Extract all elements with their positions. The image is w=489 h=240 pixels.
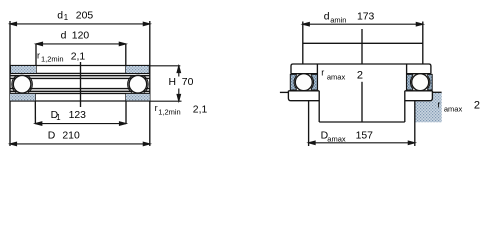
svg-text:2: 2: [474, 99, 480, 111]
svg-text:amax: amax: [444, 105, 463, 114]
svg-text:2,1: 2,1: [193, 104, 208, 115]
svg-text:2: 2: [357, 70, 363, 82]
svg-text:157: 157: [356, 131, 374, 142]
svg-text:r: r: [321, 68, 324, 78]
svg-text:r: r: [437, 100, 440, 110]
svg-text:2,1: 2,1: [71, 51, 86, 62]
svg-text:amin: amin: [330, 15, 346, 24]
svg-text:1: 1: [64, 13, 68, 22]
svg-text:173: 173: [357, 12, 375, 23]
svg-text:70: 70: [182, 77, 194, 88]
svg-text:120: 120: [72, 30, 90, 41]
svg-text:amax: amax: [327, 134, 346, 143]
svg-text:H: H: [169, 77, 177, 88]
svg-text:amax: amax: [327, 73, 346, 82]
svg-text:d: d: [61, 30, 67, 41]
svg-text:d: d: [324, 12, 330, 23]
svg-text:1,2min: 1,2min: [41, 55, 64, 64]
svg-text:210: 210: [62, 130, 80, 141]
svg-text:D: D: [48, 130, 56, 141]
svg-text:123: 123: [69, 110, 87, 121]
svg-text:d: d: [57, 11, 63, 22]
svg-text:1,2min: 1,2min: [158, 107, 181, 116]
svg-text:205: 205: [76, 11, 94, 22]
svg-text:1: 1: [56, 113, 60, 122]
svg-text:r: r: [37, 50, 40, 60]
svg-text:r: r: [155, 103, 158, 113]
